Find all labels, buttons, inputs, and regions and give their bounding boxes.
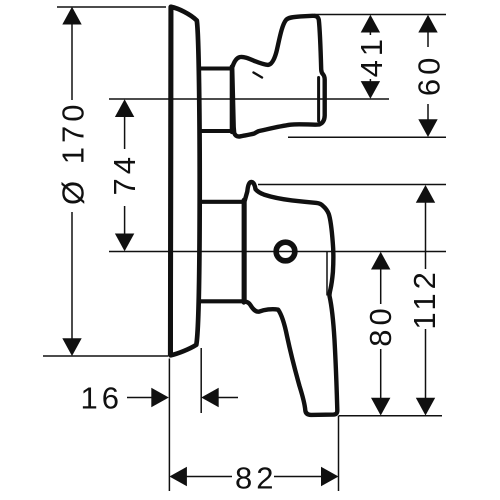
svg-text:16: 16	[80, 380, 122, 415]
41 up	[361, 15, 380, 33]
svg-text:74: 74	[107, 153, 142, 195]
dimension shafts	[72, 24, 428, 477]
dim line 80	[380, 269, 382, 304]
dia170 down	[62, 338, 81, 356]
112 down	[416, 398, 435, 416]
center line lower valve	[109, 251, 446, 253]
ext line knob bottom (60)	[288, 136, 446, 138]
dim line dia170	[71, 24, 73, 100]
knob face tick	[254, 73, 263, 78]
82 right extension	[338, 416, 340, 491]
small ext on lever	[326, 252, 328, 296]
60 up	[418, 15, 437, 33]
dim line 82	[187, 476, 233, 478]
bottom-left ext line (plate bottom)	[43, 355, 168, 357]
16 right arrow pointing left	[201, 388, 219, 407]
screw circle	[276, 242, 295, 261]
60 down	[418, 119, 437, 137]
handle sleeve	[201, 200, 243, 204]
handle rosette + lever	[245, 182, 338, 415]
diverter knob	[232, 16, 325, 137]
82 left arrow pointing left	[169, 467, 187, 486]
svg-text:60: 60	[412, 54, 447, 96]
dim line 74	[124, 117, 126, 150]
16 right extension	[200, 348, 202, 413]
svg-text:112: 112	[407, 268, 442, 329]
svg-text:41: 41	[354, 35, 389, 77]
ext line handle top (112)	[258, 184, 446, 186]
16 left arrow pointing right	[151, 388, 169, 407]
41 down	[361, 81, 380, 99]
112 up	[416, 185, 435, 203]
dim line 16	[127, 397, 152, 399]
svg-text:80: 80	[363, 304, 398, 346]
top-right ext line (knob top)	[314, 14, 446, 16]
74 up	[115, 99, 134, 117]
74 down	[115, 234, 134, 252]
ext line lever bottom (80/112)	[339, 415, 443, 417]
product outline	[170, 7, 337, 415]
arrows	[62, 7, 437, 486]
plate left edge emphasize	[168, 7, 174, 355]
center line upper valve	[109, 98, 389, 100]
top-left ext line (plate top)	[57, 6, 166, 8]
knob flange inner line	[317, 78, 320, 122]
80 up	[371, 252, 390, 270]
dia170 up	[62, 7, 81, 25]
dim line 60	[427, 32, 429, 47]
svg-text:82: 82	[235, 461, 277, 496]
80 down	[371, 398, 390, 416]
dim line 112	[425, 203, 427, 270]
82 right arrow pointing right	[321, 467, 339, 486]
svg-text:Ø 170: Ø 170	[55, 101, 90, 205]
knob sleeve	[201, 67, 232, 71]
dim line 41	[369, 32, 371, 35]
16 left / 82 left extension	[168, 359, 170, 492]
escutcheon plate	[171, 7, 200, 356]
thin extension/center lines	[43, 7, 446, 491]
